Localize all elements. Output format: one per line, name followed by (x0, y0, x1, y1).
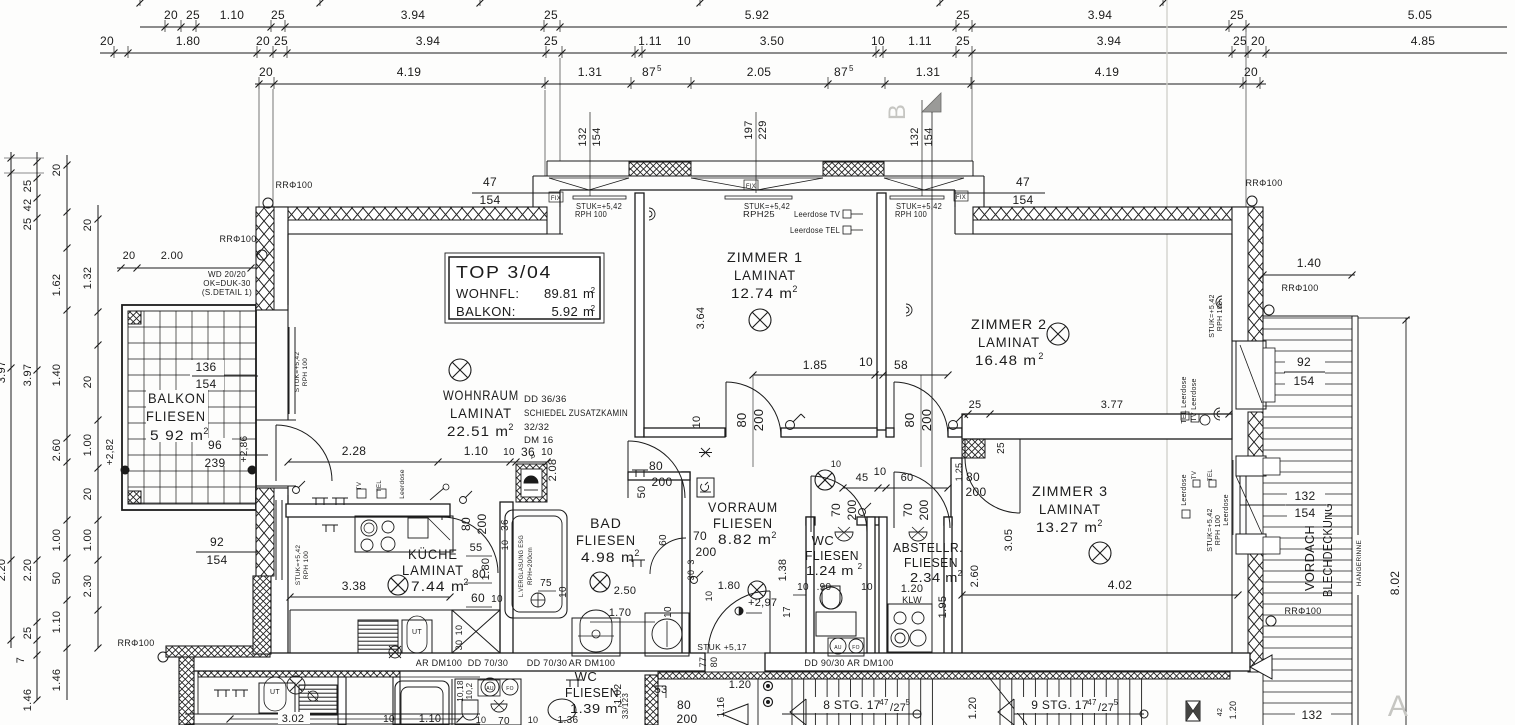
svg-text:25: 25 (956, 8, 970, 22)
svg-text:BAD: BAD (590, 515, 622, 531)
svg-text:P: P (531, 454, 536, 461)
svg-text:Leerdose TEL: Leerdose TEL (790, 225, 840, 235)
svg-text:FO: FO (852, 645, 860, 651)
svg-text:25: 25 (22, 180, 34, 193)
svg-text:3.94: 3.94 (1097, 34, 1122, 48)
svg-text:STUK=+5,42: STUK=+5,42 (294, 352, 301, 393)
svg-text:2: 2 (792, 284, 797, 294)
svg-text:1.85: 1.85 (803, 358, 828, 372)
svg-text:10: 10 (874, 466, 887, 478)
svg-text:1.10: 1.10 (220, 8, 245, 22)
svg-text:Leerdose TV: Leerdose TV (794, 209, 840, 219)
svg-text:80: 80 (677, 698, 691, 712)
svg-text:(S.DETAIL 1): (S.DETAIL 1) (202, 288, 252, 297)
svg-text:96: 96 (208, 438, 222, 452)
svg-text:VORRAUM: VORRAUM (708, 499, 778, 515)
svg-text:5: 5 (1114, 698, 1119, 707)
svg-text:DD 70/30: DD 70/30 (468, 658, 508, 668)
svg-text:VORDACH: VORDACH (1303, 525, 1317, 591)
svg-text:/27: /27 (890, 702, 906, 714)
svg-text:80: 80 (709, 657, 719, 668)
svg-text:LAMINAT: LAMINAT (734, 267, 796, 283)
svg-text:2: 2 (591, 304, 596, 313)
svg-text:A: A (1388, 690, 1408, 723)
svg-text:OK=DUK-30: OK=DUK-30 (203, 279, 251, 288)
svg-text:1.46: 1.46 (51, 669, 63, 692)
svg-text:LAMINAT: LAMINAT (978, 334, 1040, 350)
svg-text:22.51 m: 22.51 m (447, 423, 509, 439)
svg-text:25: 25 (1233, 34, 1247, 48)
svg-text:LAMINAT: LAMINAT (402, 562, 464, 578)
svg-text:154: 154 (1294, 374, 1315, 388)
svg-text:ZIMMER 3: ZIMMER 3 (1032, 483, 1108, 499)
svg-text:25: 25 (969, 399, 982, 411)
svg-text:RPH25: RPH25 (743, 209, 775, 219)
svg-text:WC: WC (812, 533, 835, 548)
svg-text:154: 154 (923, 127, 935, 146)
svg-text:RPH 100: RPH 100 (302, 358, 309, 387)
svg-text:10: 10 (704, 591, 714, 602)
svg-text:BALKON: BALKON (148, 390, 206, 406)
svg-text:200: 200 (677, 712, 698, 725)
svg-text:1.70: 1.70 (609, 607, 632, 619)
svg-text:200: 200 (475, 514, 489, 535)
svg-text:2.00: 2.00 (161, 250, 184, 262)
svg-text:197: 197 (743, 120, 755, 139)
svg-text:47: 47 (1016, 175, 1030, 189)
svg-text:2: 2 (463, 577, 468, 587)
svg-text:WOHNRAUM: WOHNRAUM (443, 387, 519, 403)
svg-text:FIX: FIX (551, 196, 561, 202)
svg-text:LAMINAT: LAMINAT (450, 405, 512, 421)
svg-text:WOHNFL:: WOHNFL: (456, 286, 519, 301)
svg-text:200: 200 (966, 485, 987, 499)
svg-text:70: 70 (829, 503, 843, 517)
svg-text:1.25: 1.25 (954, 463, 964, 482)
svg-text:1.10: 1.10 (51, 611, 63, 634)
svg-text:FLIESEN: FLIESEN (146, 408, 206, 424)
svg-text:1.20: 1.20 (729, 679, 752, 691)
svg-text:10: 10 (677, 34, 691, 48)
svg-text:10: 10 (831, 459, 842, 469)
svg-text:42: 42 (1217, 708, 1224, 716)
svg-text:42: 42 (22, 199, 34, 212)
svg-text:47: 47 (879, 698, 889, 707)
svg-text:20: 20 (82, 376, 94, 389)
svg-text:80: 80 (649, 459, 663, 473)
svg-text:TOP 3/04: TOP 3/04 (456, 262, 552, 282)
svg-text:200: 200 (751, 409, 766, 432)
svg-text:STUK=+5,42: STUK=+5,42 (1209, 294, 1216, 337)
svg-text:FO: FO (506, 686, 514, 692)
svg-text:87: 87 (834, 65, 848, 79)
svg-text:25: 25 (1230, 8, 1244, 22)
svg-text:RRΦ100: RRΦ100 (118, 638, 155, 648)
svg-text:200: 200 (917, 500, 931, 521)
svg-text:UT: UT (412, 629, 422, 636)
svg-text:80: 80 (459, 517, 473, 531)
svg-text:20: 20 (259, 65, 273, 79)
svg-text:1.16: 1.16 (716, 697, 727, 718)
svg-text:FLIESEN: FLIESEN (576, 532, 636, 548)
svg-text:RRΦ100: RRΦ100 (1285, 606, 1322, 616)
svg-text:55: 55 (470, 542, 483, 554)
svg-text:25: 25 (271, 8, 285, 22)
svg-text:25: 25 (274, 34, 288, 48)
svg-text:4.98 m: 4.98 m (581, 549, 635, 565)
svg-text:TV: TV (357, 482, 363, 490)
svg-text:20: 20 (82, 488, 94, 501)
svg-text:2.60: 2.60 (51, 439, 63, 462)
svg-text:25: 25 (996, 442, 1007, 454)
svg-text:TV: TV (1192, 471, 1198, 479)
svg-text:3.77: 3.77 (1101, 399, 1124, 411)
svg-text:BALKON:: BALKON: (456, 304, 516, 319)
svg-text:50: 50 (51, 572, 63, 585)
svg-text:3.94: 3.94 (416, 34, 441, 48)
svg-text:1.00: 1.00 (51, 529, 63, 552)
svg-text:20: 20 (51, 164, 63, 177)
svg-text:TEL: TEL (1208, 469, 1214, 481)
svg-text:1.38: 1.38 (777, 559, 789, 582)
svg-text:10: 10 (541, 447, 553, 458)
svg-text:136: 136 (196, 360, 217, 374)
svg-text:2: 2 (591, 286, 596, 295)
svg-text:1.20: 1.20 (1228, 701, 1238, 720)
svg-text:WD 20/20: WD 20/20 (208, 270, 246, 279)
svg-text:DD 70/30: DD 70/30 (527, 658, 567, 668)
svg-text:25: 25 (22, 218, 34, 231)
svg-text:45: 45 (856, 472, 869, 484)
svg-text:17: 17 (782, 606, 793, 618)
svg-text:FLIESEN: FLIESEN (904, 555, 958, 570)
svg-text:1.00: 1.00 (82, 529, 94, 552)
svg-text:3: 3 (686, 559, 696, 564)
svg-text:+2,82: +2,82 (105, 438, 116, 465)
svg-text:RRΦ100: RRΦ100 (276, 180, 313, 190)
svg-text:8.02: 8.02 (1388, 571, 1402, 596)
svg-text:RPH 100: RPH 100 (575, 209, 607, 219)
svg-text:20: 20 (123, 250, 136, 262)
svg-text:3.94: 3.94 (1088, 8, 1113, 22)
svg-text:154: 154 (1013, 193, 1034, 207)
svg-text:DD 36/36: DD 36/36 (524, 394, 567, 405)
svg-text:80: 80 (472, 567, 486, 581)
svg-text:2: 2 (858, 562, 863, 571)
svg-text:2.50: 2.50 (614, 585, 637, 597)
svg-text:KÜCHE: KÜCHE (408, 545, 458, 562)
svg-text:132: 132 (909, 127, 921, 146)
svg-text:AU: AU (834, 645, 842, 651)
svg-text:10: 10 (691, 416, 703, 429)
svg-text:80: 80 (902, 412, 917, 427)
svg-text:4.19: 4.19 (397, 65, 422, 79)
svg-text:AU: AU (486, 686, 494, 692)
svg-text:7.44 m: 7.44 m (411, 578, 465, 594)
svg-text:9 STG. 17: 9 STG. 17 (1031, 698, 1088, 712)
svg-text:FLIESEN: FLIESEN (805, 548, 859, 563)
svg-text:200: 200 (845, 500, 859, 521)
svg-text:229: 229 (757, 120, 769, 139)
svg-text:1.40: 1.40 (1297, 256, 1322, 270)
svg-text:5.92: 5.92 (745, 8, 770, 22)
svg-text:10: 10 (454, 625, 464, 636)
svg-text:25: 25 (544, 34, 558, 48)
svg-text:20: 20 (100, 34, 114, 48)
svg-text:132: 132 (1295, 489, 1316, 503)
svg-text:8 STG. 17: 8 STG. 17 (823, 698, 880, 712)
svg-text:10: 10 (663, 606, 674, 618)
svg-text:5 92 m: 5 92 m (150, 427, 204, 443)
svg-text:80: 80 (966, 470, 980, 484)
svg-text:3.02: 3.02 (282, 713, 305, 725)
svg-text:ZIMMER 2: ZIMMER 2 (971, 316, 1047, 332)
svg-text:ABSTELLR.: ABSTELLR. (893, 540, 963, 555)
svg-text:2: 2 (508, 422, 513, 432)
svg-text:1.62: 1.62 (51, 274, 63, 297)
svg-text:RRΦ100: RRΦ100 (1246, 178, 1283, 188)
svg-text:2: 2 (203, 426, 208, 436)
svg-text:B: B (884, 104, 911, 120)
svg-text:1.80: 1.80 (718, 580, 741, 592)
svg-text:4.19: 4.19 (1095, 65, 1120, 79)
svg-text:4.85: 4.85 (1411, 34, 1436, 48)
svg-text:12.74 m: 12.74 m (731, 285, 793, 301)
svg-text:3.94: 3.94 (401, 8, 426, 22)
svg-text:1.80: 1.80 (176, 34, 201, 48)
svg-text:FLIESEN: FLIESEN (565, 685, 619, 700)
svg-text:200: 200 (696, 545, 717, 559)
svg-text:1.10: 1.10 (464, 444, 489, 458)
svg-text:10,2: 10,2 (465, 682, 474, 699)
svg-text:1.46: 1.46 (22, 689, 34, 712)
svg-text:1.31: 1.31 (578, 65, 603, 79)
svg-text:70: 70 (901, 503, 915, 517)
svg-text:75: 75 (540, 578, 552, 589)
svg-text:200: 200 (919, 409, 934, 432)
svg-text:1.11: 1.11 (908, 34, 932, 48)
svg-text:SCHIEDEL ZUSATZKAMIN: SCHIEDEL ZUSATZKAMIN (524, 408, 628, 419)
svg-text:2: 2 (771, 530, 776, 540)
svg-text:25: 25 (186, 8, 200, 22)
svg-text:10: 10 (503, 447, 515, 458)
svg-text:1.40: 1.40 (51, 364, 63, 387)
svg-text:3.38: 3.38 (342, 579, 367, 593)
svg-text:AR DM100: AR DM100 (569, 658, 615, 668)
svg-text:AR DM100: AR DM100 (416, 658, 462, 668)
svg-text:60: 60 (901, 472, 914, 484)
svg-text:30: 30 (454, 640, 464, 651)
svg-text:2: 2 (618, 700, 623, 709)
svg-text:16.48 m: 16.48 m (975, 352, 1037, 368)
svg-text:10,18: 10,18 (456, 680, 465, 702)
svg-text:92: 92 (210, 535, 224, 549)
svg-text:FIX: FIX (746, 184, 756, 190)
svg-text:25: 25 (22, 627, 34, 640)
svg-text:8.82 m: 8.82 m (718, 531, 772, 547)
svg-text:47: 47 (483, 175, 497, 189)
svg-text:RPH 100: RPH 100 (1215, 515, 1222, 546)
svg-text:10: 10 (383, 714, 395, 725)
svg-text:80: 80 (734, 412, 749, 427)
svg-text:TV Leerdose: TV Leerdose (1191, 378, 1198, 421)
svg-text:5.05: 5.05 (1408, 8, 1433, 22)
svg-text:60: 60 (658, 534, 669, 546)
svg-text:3.64: 3.64 (695, 307, 707, 330)
svg-text:/27: /27 (1098, 702, 1114, 714)
svg-text:RPH=200cm: RPH=200cm (528, 547, 534, 585)
svg-text:1.11: 1.11 (638, 34, 662, 48)
svg-text:DD 90/30 AR DM100: DD 90/30 AR DM100 (804, 658, 893, 668)
svg-text:4.02: 4.02 (1108, 578, 1133, 592)
svg-text:3.50: 3.50 (760, 34, 785, 48)
svg-text:RPH 100: RPH 100 (303, 551, 310, 580)
svg-text:2.28: 2.28 (342, 444, 367, 458)
svg-text:RPH 100: RPH 100 (895, 209, 927, 219)
svg-text:RRΦ100: RRΦ100 (220, 234, 257, 244)
svg-text:5: 5 (906, 698, 911, 707)
svg-text:UT: UT (270, 689, 280, 696)
svg-text:1.95: 1.95 (937, 596, 949, 619)
svg-text:132: 132 (577, 127, 589, 146)
svg-text:5: 5 (657, 64, 662, 73)
svg-text:20: 20 (164, 8, 178, 22)
svg-text:LAMINAT: LAMINAT (1039, 501, 1101, 517)
svg-text:58: 58 (894, 358, 908, 372)
svg-text:+2,86: +2,86 (239, 435, 250, 462)
svg-text:154: 154 (207, 553, 228, 567)
svg-text:2: 2 (958, 569, 963, 578)
svg-text:154: 154 (1295, 506, 1316, 520)
svg-text:154: 154 (196, 377, 217, 391)
svg-text:20: 20 (256, 34, 270, 48)
svg-text:RPH 100: RPH 100 (1217, 301, 1224, 332)
svg-text:50: 50 (636, 486, 648, 499)
svg-text:1.32: 1.32 (82, 267, 94, 290)
svg-text:RRΦ100: RRΦ100 (1282, 283, 1319, 293)
svg-text:1.20: 1.20 (901, 583, 924, 595)
svg-text:TEL Leerdose: TEL Leerdose (1181, 376, 1188, 423)
svg-text:1.20: 1.20 (967, 697, 979, 720)
svg-text:5.92: 5.92 (551, 304, 578, 319)
svg-text:87: 87 (642, 65, 656, 79)
svg-text:HANGERINNE: HANGERINNE (1356, 539, 1363, 586)
svg-text:STUK=+5,42: STUK=+5,42 (1207, 508, 1214, 551)
svg-text:132: 132 (1302, 708, 1323, 722)
svg-text:89.81: 89.81 (544, 286, 578, 301)
svg-text:Leerdose: Leerdose (1223, 494, 1230, 526)
svg-text:25: 25 (956, 34, 970, 48)
svg-text:20: 20 (82, 219, 94, 232)
svg-text:WC: WC (575, 669, 598, 684)
svg-text:Leerdose: Leerdose (1181, 474, 1188, 506)
svg-text:TEL: TEL (377, 480, 383, 492)
svg-text:3.97: 3.97 (0, 361, 8, 384)
svg-text:2.60: 2.60 (969, 565, 981, 588)
svg-text:7: 7 (15, 657, 27, 663)
svg-text:13.27 m: 13.27 m (1036, 519, 1098, 535)
svg-text:10: 10 (797, 582, 809, 593)
svg-text:1.00: 1.00 (82, 434, 94, 457)
svg-text:1.31: 1.31 (916, 65, 941, 79)
svg-text:10: 10 (558, 586, 569, 598)
svg-text:2: 2 (1038, 351, 1043, 361)
svg-text:20: 20 (1251, 34, 1265, 48)
svg-text:77: 77 (698, 657, 708, 668)
svg-text:2.08: 2.08 (547, 459, 559, 482)
svg-text:+2,97: +2,97 (748, 597, 777, 609)
svg-text:10: 10 (491, 594, 503, 605)
svg-text:47: 47 (1087, 698, 1097, 707)
svg-text:1.39 m: 1.39 m (570, 701, 618, 716)
svg-text:STUK +5,17: STUK +5,17 (697, 642, 747, 652)
svg-text:239: 239 (205, 456, 226, 470)
svg-text:10: 10 (871, 34, 885, 48)
svg-text:2.30: 2.30 (82, 575, 94, 598)
svg-text:3.97: 3.97 (22, 364, 34, 387)
svg-text:2.05: 2.05 (747, 65, 772, 79)
svg-text:STUK=+5,42: STUK=+5,42 (295, 545, 302, 586)
svg-text:1.24 m: 1.24 m (806, 563, 854, 578)
svg-text:25: 25 (544, 8, 558, 22)
svg-text:2.20: 2.20 (22, 559, 34, 582)
svg-text:10: 10 (861, 582, 873, 593)
svg-text:3.05: 3.05 (1003, 529, 1015, 552)
svg-text:32/32: 32/32 (524, 422, 549, 433)
svg-text:60: 60 (471, 591, 485, 605)
svg-text:2.20: 2.20 (0, 559, 8, 582)
svg-text:154: 154 (480, 193, 501, 207)
svg-text:154: 154 (591, 127, 603, 146)
svg-text:ZIMMER 1: ZIMMER 1 (727, 249, 803, 265)
svg-text:FIX: FIX (956, 195, 966, 201)
svg-text:200: 200 (652, 475, 673, 489)
svg-text:5: 5 (849, 64, 854, 73)
svg-text:2: 2 (634, 548, 639, 558)
svg-text:70: 70 (693, 529, 707, 543)
svg-text:Leerdose: Leerdose (399, 469, 406, 499)
svg-text:FLIESEN: FLIESEN (713, 515, 773, 531)
svg-text:92: 92 (1297, 355, 1311, 369)
svg-text:L.VERGLASUNG ESG: L.VERGLASUNG ESG (519, 535, 525, 597)
svg-text:10: 10 (528, 715, 539, 725)
svg-text:10: 10 (859, 355, 873, 369)
svg-text:70: 70 (498, 716, 510, 725)
svg-text:2: 2 (1097, 518, 1102, 528)
